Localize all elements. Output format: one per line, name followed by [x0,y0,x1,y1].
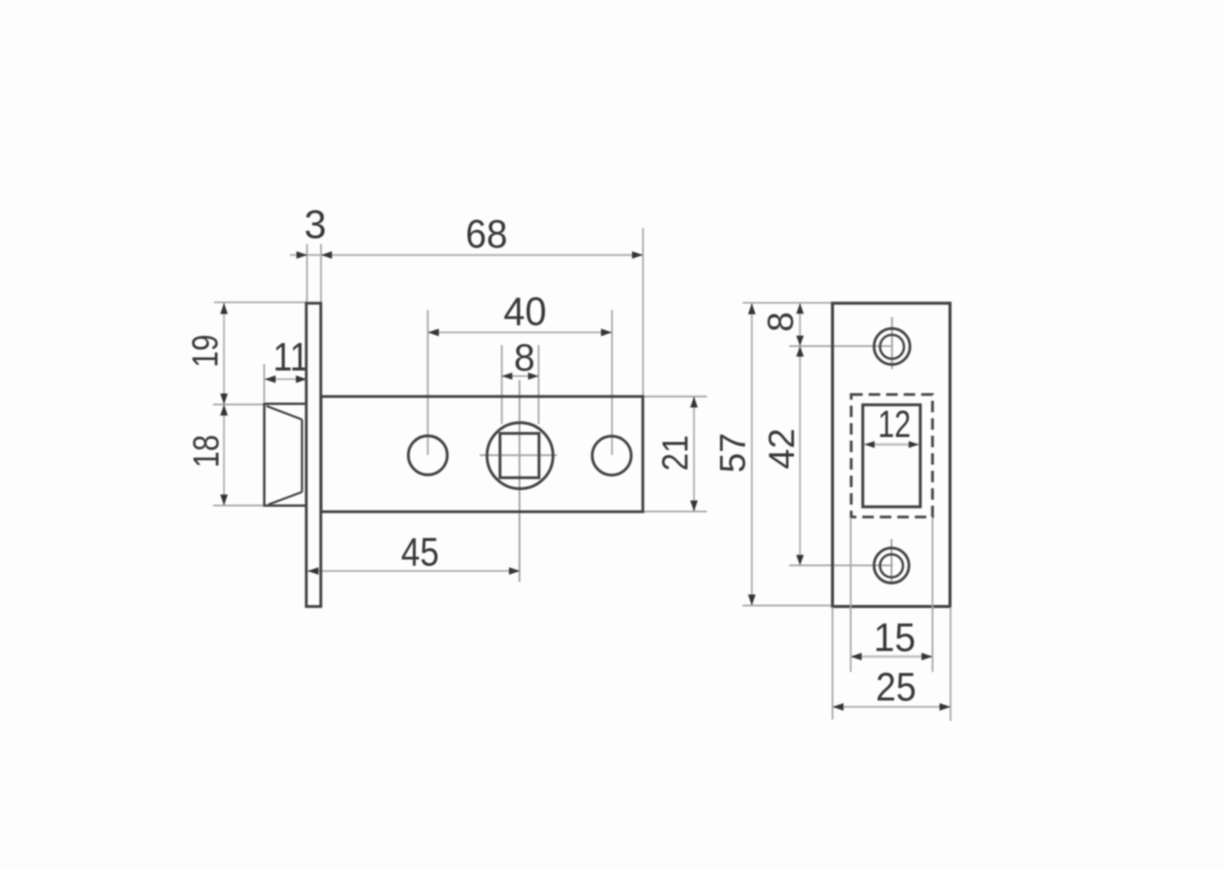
dim line 8/42 vertical [799,303,801,565]
strike plate outline [833,303,951,606]
arrow 21 top [690,397,698,408]
dim 25 [833,706,951,708]
top hole inner [880,335,904,359]
ref line to bottom hole [789,564,893,566]
left screw hole [408,436,447,475]
arrow 8 left [502,373,513,380]
center line vertical through spindle [519,380,521,582]
arrow 40 left [428,329,439,337]
ext 15 left [850,518,852,673]
ext 40 right into circle [611,310,613,455]
arrow 45 left [308,567,319,575]
svg-text:18: 18 [186,435,227,468]
ext 8 right [538,345,540,424]
ext 8 left [501,345,503,424]
bolt bevel bottom slant [269,492,303,505]
bolt bevel inner edge [301,420,303,493]
spindle circle [487,423,553,489]
arrow 25 right [940,703,951,711]
svg-text:40: 40 [504,290,547,334]
svg-text:19: 19 [185,335,226,368]
dim 11 bolt width [265,378,307,380]
dim 40 [428,331,612,333]
svg-text:57: 57 [712,433,753,473]
dim 15 [851,655,933,657]
latch body [321,397,643,512]
top hole crosshair vertical [891,317,893,369]
dim line 57 [751,303,753,605]
arrow 45 right [509,567,520,575]
arrow 40 right [601,329,612,337]
svg-text:12: 12 [878,404,911,446]
dim 45 [308,570,521,572]
arrow 15 left [851,653,862,661]
arrow 57 top [748,303,756,314]
bottom hole inner [880,554,903,577]
arrow 19 bottom [220,394,228,405]
bolt bevel top slant [267,406,303,420]
top hole outer [874,329,910,365]
ext 21 bottom [644,511,707,513]
center line horizontal through spindle [480,454,557,456]
arrow 25 left [833,703,844,711]
svg-text:42: 42 [761,428,802,469]
latch bolt outline [264,404,306,506]
arrow 11 left [265,375,276,383]
arrow 42 bottom [796,555,804,566]
dim 8 spindle [502,375,539,377]
ext 11 left [263,364,265,402]
faceplate side view [306,303,321,606]
ext line 68 right [642,228,644,396]
ext 15 right [932,518,934,673]
ext 40 left into circle [427,310,429,455]
svg-text:11: 11 [273,336,309,380]
dim 12 [865,443,919,445]
arrow 12 left [865,441,875,448]
svg-text:68: 68 [466,213,508,257]
arrow 21 bottom [690,501,698,512]
dim line 21 [693,397,695,512]
ext 19 top [214,301,306,303]
arrow 18 top [220,405,228,416]
arrow 3 right / 68 left [321,251,332,259]
arrow 18 bottom [220,495,228,506]
dim line 19/18 vertical [223,303,225,506]
ext 19/18 middle [213,404,264,406]
svg-text:15: 15 [874,616,916,660]
ref line to top hole [789,345,893,347]
arrow 8 right [528,373,539,380]
arrow 12 right [909,441,919,448]
bottom hole crosshair vertical [891,539,893,583]
dim line 3/68 horizontal [290,254,643,256]
ext line faceplate left above [306,244,308,302]
arrow 68 right [632,251,643,259]
ext 21 top [644,396,707,398]
bottom ext line [743,605,831,607]
svg-text:8: 8 [514,338,535,380]
arrow 15 right [922,653,933,661]
ext 25 left [832,607,834,720]
svg-text:3: 3 [304,203,326,247]
arrow 3 left outside [297,251,308,259]
svg-text:45: 45 [401,531,439,575]
arrow 11 right [296,375,307,383]
right screw hole [592,436,631,475]
dashed latch opening [851,395,932,518]
svg-text:25: 25 [876,666,917,710]
arrow 19 top [220,303,228,314]
ext 18 bottom [213,505,269,507]
ext line faceplate right above [320,244,322,302]
bottom hole outer [874,548,909,583]
spindle square [500,433,539,477]
arrow 42 top [796,346,804,357]
top ext line [743,302,833,304]
svg-text:21: 21 [655,435,696,471]
arrow 57 bottom [748,595,756,606]
ext 25 right [950,607,952,721]
svg-text:8: 8 [760,312,801,332]
arrow 8R bottom [796,336,804,347]
arrow 8R top [796,303,804,314]
latch opening inner rect [863,405,921,507]
